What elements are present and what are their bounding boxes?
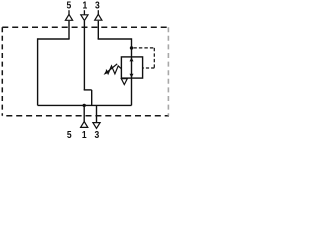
wire valve outlet down xyxy=(131,78,133,105)
wire port 5 top stub xyxy=(68,10,70,15)
valve arrowhead up (top) xyxy=(130,57,134,61)
node rail junction dot xyxy=(83,104,86,107)
svg-text:3: 3 xyxy=(95,0,100,12)
wire port 1 jog leg down to rail xyxy=(91,90,93,106)
pilot line dashed down xyxy=(153,48,155,68)
enclosure dashed boundary right (grey) xyxy=(167,27,169,116)
wire port 5 horizontal to left xyxy=(38,38,70,40)
wire left leg down xyxy=(37,38,39,105)
relief valve body box xyxy=(121,57,142,78)
port 3 bottom arrow (down triangle) xyxy=(93,123,100,129)
wire port 3 top stub xyxy=(97,10,99,15)
pilot line dashed left into valve xyxy=(143,67,155,69)
wire port 3 leg down xyxy=(97,21,99,39)
svg-text:5: 5 xyxy=(67,129,72,140)
spring adjustment arrow shaft xyxy=(105,64,117,74)
node pilot junction dot xyxy=(130,46,133,49)
valve flow line through box xyxy=(131,57,133,78)
port 1 bottom arrow (up triangle) xyxy=(81,122,88,128)
valve arrowhead down (bottom) xyxy=(130,74,134,78)
svg-text:1: 1 xyxy=(82,129,87,140)
enclosure dashed boundary top xyxy=(2,26,169,28)
enclosure dashed boundary left xyxy=(1,27,3,116)
svg-text:3: 3 xyxy=(95,129,100,140)
wire port 3 bottom leg xyxy=(96,105,98,123)
enclosure dashed boundary bottom xyxy=(2,115,169,117)
port 3 top arrow (up triangle) xyxy=(95,14,102,20)
wire bottom rail xyxy=(38,104,132,106)
wire port 3 horizontal to valve xyxy=(98,38,132,40)
wire port 5 leg down xyxy=(68,21,70,39)
port 5 top arrow (up triangle) xyxy=(65,14,72,20)
wire port 1 bottom leg xyxy=(83,105,85,122)
wire valve inlet down xyxy=(131,38,133,57)
valve spring xyxy=(106,66,121,74)
port 1 top arrow (down triangle) xyxy=(81,15,88,21)
svg-text:5: 5 xyxy=(67,0,72,12)
svg-text:1: 1 xyxy=(83,0,88,12)
spring adjustment arrowhead xyxy=(104,71,109,75)
vent triangle below valve xyxy=(121,79,127,85)
wire port 1 jog right xyxy=(84,89,92,91)
wire port 1 leg down xyxy=(83,21,85,90)
wire port 1 top stub xyxy=(83,10,85,15)
pilot line dashed right xyxy=(133,47,154,49)
